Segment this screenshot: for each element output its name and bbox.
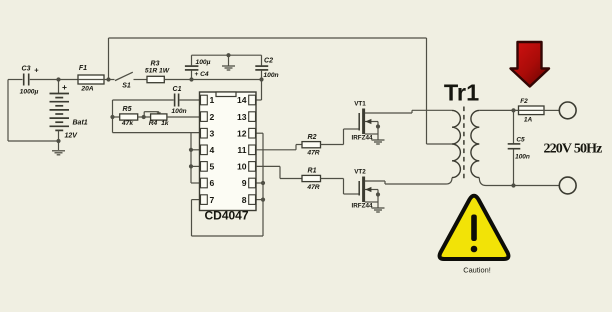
capacitor C3 1000u <box>23 74 25 86</box>
transformer Tr1 secondary winding <box>471 110 479 177</box>
wire pin 11 jog up <box>295 145 297 150</box>
svg-text:+: + <box>62 82 67 92</box>
wire F1 to S1 <box>104 79 115 81</box>
wire R4 to pin 2 <box>167 116 200 118</box>
resistor R2 47R body <box>302 142 321 148</box>
svg-text:1: 1 <box>210 95 215 105</box>
svg-text:IRFZ44: IRFZ44 <box>352 134 373 141</box>
svg-text:3: 3 <box>210 128 215 138</box>
wire to R1 <box>280 178 302 180</box>
svg-text:VT2: VT2 <box>354 169 366 176</box>
wire into pin 14 <box>256 99 262 101</box>
svg-text:51R 1W: 51R 1W <box>145 68 170 75</box>
wire into pin 12 <box>256 132 263 134</box>
switch S1 blade <box>115 72 133 80</box>
pin 7 <box>201 195 208 205</box>
node C4 bottom junction <box>189 77 193 81</box>
wire VT2 gate jog vertical <box>343 179 345 195</box>
node F1-S1 junction to top rail <box>106 77 110 81</box>
wire ground loop bottom <box>192 235 264 237</box>
output terminal top <box>559 102 576 119</box>
wire into VT2 gate <box>344 193 360 195</box>
wire down to pin 14 <box>261 80 263 101</box>
svg-text:F2: F2 <box>520 98 528 105</box>
transformer core <box>463 107 465 182</box>
svg-text:6: 6 <box>210 178 215 188</box>
svg-text:R1: R1 <box>308 168 317 175</box>
svg-text:C5: C5 <box>516 137 525 144</box>
CD4047 notch <box>216 92 236 97</box>
wire pin 7 out <box>192 199 200 201</box>
svg-text:R2: R2 <box>308 134 317 141</box>
trimmer R4 1k body <box>151 114 167 120</box>
svg-text:Caution!: Caution! <box>463 266 491 275</box>
svg-text:11: 11 <box>237 145 246 155</box>
resistor R3 51R 1W body <box>147 76 164 82</box>
resistor R5 47k body <box>120 114 138 120</box>
wire into pin 4 <box>191 149 200 151</box>
svg-text:1A: 1A <box>524 117 533 124</box>
pin 12 <box>249 128 256 138</box>
svg-text:R3: R3 <box>151 61 160 68</box>
svg-text:14: 14 <box>237 95 247 105</box>
svg-text:20A: 20A <box>80 86 93 93</box>
svg-text:Tr1: Tr1 <box>444 80 479 106</box>
wire pin7 down <box>191 200 193 236</box>
battery Bat1 12V <box>50 93 70 95</box>
wire pin 11 out <box>256 149 296 151</box>
svg-text:12V: 12V <box>65 133 79 140</box>
svg-text:4: 4 <box>210 145 215 155</box>
pin 10 <box>249 162 256 172</box>
capacitor C5 100n <box>513 110 515 143</box>
pin 3 <box>201 128 208 138</box>
svg-text:IRFZ44: IRFZ44 <box>352 202 373 209</box>
pin 9 <box>249 178 256 188</box>
svg-text:R4: R4 <box>149 120 158 127</box>
transistor Q1 VT1 IRFZ44 <box>358 113 360 131</box>
svg-text:C3: C3 <box>22 66 31 73</box>
wire top ground rail <box>192 54 262 56</box>
wire center tap vertical from +12V rail <box>426 38 428 144</box>
wire to C1 left plate <box>113 99 174 101</box>
wire secondary bottom out <box>479 178 559 186</box>
wire S1 to R3 <box>134 79 148 81</box>
wire left vertical (battery negative loop) <box>7 80 9 142</box>
wire R3 to VDD rail <box>164 79 261 81</box>
svg-text:5: 5 <box>210 162 215 172</box>
svg-text:10: 10 <box>237 162 247 172</box>
wire into VT1 gate <box>344 128 360 130</box>
node C5 bottom junction <box>511 183 515 187</box>
fuse F2 1A body <box>519 106 545 115</box>
wire ground stem <box>228 55 230 65</box>
trimmer R4 wiper wire <box>143 112 145 117</box>
wire R1 to VT2 gate jog <box>321 178 344 180</box>
ground below battery <box>52 150 65 152</box>
wire into pin 8 <box>256 199 263 201</box>
wire VT1 drain to primary top <box>412 109 452 111</box>
svg-text:13: 13 <box>237 112 247 122</box>
pin 4 <box>201 145 208 155</box>
wire VT2 drain to primary bottom <box>385 178 452 184</box>
node R5-R4 wiper junction <box>142 115 146 119</box>
fuse F1 element line <box>78 79 104 81</box>
wire secondary top to F2 <box>479 109 518 111</box>
node pin 9 tap <box>261 181 265 185</box>
svg-text:9: 9 <box>242 178 247 188</box>
node pin 5 tap <box>189 164 193 168</box>
wire battery positive stem <box>58 80 60 94</box>
svg-text:+ C4: + C4 <box>194 71 209 78</box>
wire F2 to output terminal <box>544 109 560 111</box>
wire up to +12V top rail <box>108 38 110 80</box>
wire R5 to R4 <box>138 116 151 118</box>
wire pin 10 out <box>256 165 280 167</box>
capacitor C4 100u <box>191 71 193 80</box>
svg-text:C2: C2 <box>264 57 273 64</box>
wire VT1 gate jog vertical <box>343 129 345 145</box>
wire to C3 left plate <box>8 79 23 81</box>
svg-text:7: 7 <box>210 195 215 205</box>
ground top center <box>222 65 235 67</box>
pin 2 <box>201 112 208 122</box>
output terminal bottom <box>559 177 576 194</box>
svg-text:1000µ: 1000µ <box>20 89 39 96</box>
svg-text:12: 12 <box>237 128 247 138</box>
node C5 top junction <box>511 108 515 112</box>
pin 14 <box>249 95 256 105</box>
svg-text:8: 8 <box>242 195 247 205</box>
wire bottom left to battery negative <box>8 140 59 142</box>
svg-text:220V 50Hz: 220V 50Hz <box>543 141 602 156</box>
op-amp U1 CD4047 body <box>200 92 257 211</box>
node battery positive junction <box>56 77 60 81</box>
svg-text:C1: C1 <box>173 86 182 93</box>
fuse F1 20A body <box>78 75 104 84</box>
wire into pin 9 <box>256 182 263 184</box>
wire ground loop right vertical <box>262 133 264 236</box>
pin 11 <box>249 145 256 155</box>
wire VT2 drain <box>365 180 385 182</box>
svg-text:Bat1: Bat1 <box>73 120 88 127</box>
svg-text:47R: 47R <box>306 150 319 157</box>
caution warning triangle <box>440 196 509 259</box>
wire battery negative stem <box>58 130 60 141</box>
capacitor C2 100n <box>261 55 263 65</box>
wire into pin 5 <box>191 165 200 167</box>
svg-text:100n: 100n <box>171 108 186 115</box>
pin 1 <box>201 95 208 105</box>
node pin 4 tap <box>189 148 193 152</box>
wire C3 to fuse F1 <box>30 79 78 81</box>
svg-text:F1: F1 <box>79 65 87 72</box>
node C2 bottom / pin14 junction <box>259 77 263 81</box>
svg-text:2: 2 <box>210 112 215 122</box>
svg-text:47R: 47R <box>306 184 319 191</box>
wire pins 4-5-6 vertical <box>190 133 192 183</box>
resistor R1 47R body <box>302 175 321 181</box>
svg-text:CD4047: CD4047 <box>204 209 248 223</box>
svg-text:100n: 100n <box>515 154 530 161</box>
wire VT2 drain jog <box>384 181 386 184</box>
wire RC left vertical <box>112 100 114 133</box>
fuse F2 element line <box>519 109 545 111</box>
wire center tap to primary <box>427 143 453 145</box>
wire +12V top rail <box>109 37 427 39</box>
transformer Tr1 primary winding <box>452 110 460 177</box>
wire to R2 <box>296 144 302 146</box>
svg-text:R5: R5 <box>123 106 132 113</box>
wire VT1 drain jog <box>411 110 413 113</box>
svg-text:+: + <box>34 66 39 75</box>
capacitor C1 100n <box>174 94 176 107</box>
node battery negative junction <box>56 139 60 143</box>
wire RC bottom to pin 3 <box>113 132 201 134</box>
wire to R5 <box>113 116 120 118</box>
node pin 8 tap <box>261 198 265 202</box>
svg-text:1k: 1k <box>161 120 169 127</box>
svg-text:S1: S1 <box>122 83 131 90</box>
wire into pin 6 <box>191 182 200 184</box>
node R5 left junction <box>110 115 114 119</box>
node ground tap <box>226 53 230 57</box>
pin 13 <box>249 112 256 122</box>
svg-text:100µ: 100µ <box>195 59 210 66</box>
svg-text:100n: 100n <box>263 72 278 79</box>
wire pin 10 jog down <box>279 166 281 178</box>
transistor Q2 VT2 IRFZ44 <box>358 181 360 196</box>
svg-text:VT1: VT1 <box>354 101 366 108</box>
wire R2 to VT1 gate jog <box>321 144 344 146</box>
wire to ground <box>58 141 60 150</box>
pin 6 <box>201 178 208 188</box>
pin 5 <box>201 162 208 172</box>
svg-text:47k: 47k <box>121 120 133 127</box>
pin 8 <box>249 195 256 205</box>
wire C1 to pin 1 <box>180 99 201 101</box>
wire VT1 drain <box>365 112 412 114</box>
